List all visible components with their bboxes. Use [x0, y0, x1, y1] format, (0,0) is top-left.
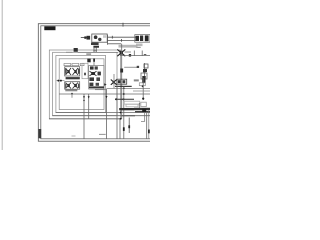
- center row4 boxes: [89, 83, 93, 86]
- bowtie core: [113, 81, 115, 84]
- center row2 right mark: [98, 72, 101, 76]
- relief valve X (bowtie): [117, 49, 125, 56]
- center row2 core: [91, 72, 95, 75]
- bus line y118.8: [49, 118, 122, 120]
- mark inside light box: [84, 73, 86, 76]
- outer frame: [38, 24, 152, 142]
- inner frame: [41, 26, 153, 139]
- cooler vertical 2: [141, 51, 143, 56]
- dot on x143: [142, 98, 144, 100]
- dark mark x129: [128, 125, 130, 128]
- small text under valve block: [136, 47, 141, 48]
- arrowhead x106: [106, 96, 108, 98]
- right edge component stack vertical: [144, 63, 146, 82]
- corner down from y94: [71, 94, 73, 98]
- tick on line2: [121, 39, 123, 42]
- drop vertical x120: [119, 119, 121, 139]
- nested group box D: [59, 59, 104, 110]
- dark line y99.3 with dots: [115, 98, 134, 100]
- solenoid cells: [118, 80, 121, 83]
- center row1 dark boxes: [90, 66, 94, 69]
- branch end tick: [137, 66, 139, 68]
- arrowhead x88.7: [88, 96, 90, 98]
- cooler vertical 1: [133, 51, 135, 56]
- darker segment on y115.7: [122, 115, 135, 117]
- valve block cell 3: [145, 35, 149, 41]
- pump drive shaft line: [81, 37, 87, 39]
- left bank section 1 box: [65, 67, 80, 76]
- small mark right edge y72: [143, 72, 145, 74]
- corner line x144.7: [141, 113, 145, 121]
- top border tick: [122, 23, 124, 27]
- arrowhead x84: [83, 96, 85, 98]
- small text left of filter: [66, 52, 73, 53]
- pump label text 2: [86, 53, 91, 54]
- return line y91 right: [133, 90, 150, 92]
- relief outlet small square: [129, 54, 131, 57]
- stack box2 dark mark: [142, 76, 145, 79]
- arrow mark: [104, 83, 107, 86]
- bus line y115.7: [52, 115, 150, 117]
- return line under relief: [120, 55, 150, 57]
- vertical x143: [142, 78, 144, 100]
- right edge vertical x148.8: [148, 110, 150, 139]
- stack box 2: [141, 73, 147, 79]
- page left edge line: [1, 0, 3, 150]
- valve block cell 2: [140, 36, 143, 42]
- bus line y112.5: [56, 112, 150, 114]
- section2 dark centers: [67, 84, 70, 87]
- pump outlet vertical a: [93, 47, 95, 52]
- pump outlet vertical b: [95, 47, 97, 52]
- nested group box A: [49, 50, 120, 119]
- bowtie valve center-right: [111, 80, 117, 85]
- branch line y67: [124, 66, 138, 68]
- nested group box C: [56, 56, 106, 113]
- tick on line1: [111, 36, 113, 39]
- valve X symbol 1: [66, 68, 72, 75]
- dot on line y60: [93, 58, 95, 61]
- right valve block outline: [135, 35, 150, 43]
- junction dots at x120: [120, 112, 122, 114]
- dark bottom band of center cluster: [89, 86, 104, 88]
- valve block lower marks: [136, 44, 143, 47]
- pump label text: [93, 50, 97, 51]
- dot on y88.9 x124: [123, 87, 125, 89]
- dot top x84: [83, 100, 85, 102]
- section2 X symbol 1: [66, 83, 72, 89]
- delivery line 1: [108, 36, 137, 38]
- pump outlet vertical: [107, 35, 109, 45]
- small dark squares right: [142, 109, 146, 112]
- bottom border small text dash: [72, 135, 76, 137]
- engine blob: [87, 36, 91, 40]
- right dark band to edge: [134, 108, 150, 110]
- right dark band 2: [135, 111, 150, 113]
- left border vertical label block: [39, 129, 42, 138]
- tank light boxes top-right of bus: [124, 101, 146, 107]
- center row2 X valve: [90, 71, 97, 76]
- pump gear circle 2: [98, 38, 101, 41]
- vertical through bowtie: [113, 74, 115, 88]
- drop vertical x84: [83, 94, 85, 139]
- marks under section2: [65, 89, 77, 91]
- long return line y88.9: [107, 87, 151, 89]
- thick dark drain segment: [115, 86, 132, 87]
- center row3 boxes: [89, 77, 94, 81]
- coupling blob: [84, 36, 86, 38]
- junction dots on nested edges: [57, 80, 62, 82]
- pump lower valves row: [91, 43, 99, 45]
- short line y89.7: [95, 89, 106, 91]
- pump gear circle 1: [94, 35, 98, 39]
- dark band under section1: [66, 77, 80, 79]
- delivery line 3: [108, 43, 122, 45]
- section2 X symbol 2: [73, 83, 79, 89]
- dark tick on x123.8: [123, 127, 125, 131]
- stack box 1: [144, 64, 148, 68]
- valve X symbol 2: [73, 68, 79, 75]
- gray band above relief: [119, 45, 138, 48]
- tick at x72 on return line: [71, 93, 73, 95]
- vertical x129 short: [128, 118, 130, 134]
- delivery line 2: [108, 40, 137, 42]
- pump lower box: [93, 46, 99, 48]
- dash near bottom x99-106: [99, 133, 106, 135]
- drop vertical x88.7: [88, 94, 90, 119]
- pilot line crossing nested edges: [57, 80, 65, 82]
- cooler top tick: [144, 54, 147, 56]
- vertical x123.8: [123, 87, 125, 139]
- nested group box B: [53, 52, 117, 115]
- orifice blob on x122: [120, 69, 123, 73]
- vertical x146.7: [146, 113, 148, 139]
- drop vertical x106: [106, 89, 108, 139]
- center cluster box: [89, 66, 104, 90]
- title label black box: [44, 26, 55, 30]
- dark band y108.5-110: [119, 108, 134, 110]
- valve block cell 1: [136, 36, 140, 41]
- line right of relief: [125, 51, 132, 53]
- stack dark mark: [143, 69, 147, 72]
- line from pump area to relief X: [78, 51, 119, 53]
- relief dark core: [120, 51, 123, 55]
- left bank section 2 box: [65, 82, 80, 90]
- vertical x139.3 top: [138, 103, 140, 108]
- dot under small box: [142, 85, 144, 87]
- right row marks y80: [134, 79, 139, 81]
- filter blob on group top line: [74, 48, 78, 52]
- pilot feed vertical x122: [121, 44, 123, 119]
- labels row on left bank: [64, 64, 84, 66]
- solenoid valve box: [117, 79, 127, 84]
- right row blob: [142, 78, 145, 82]
- long return line y94: [59, 93, 150, 95]
- pump ports marks: [103, 35, 106, 38]
- right small box y83: [139, 83, 145, 86]
- dark blob top of center cluster: [87, 59, 90, 63]
- light box left of center cluster: [82, 63, 88, 78]
- valve dark centers: [67, 70, 69, 73]
- pump group box: [92, 34, 107, 42]
- vertical x117: [116, 86, 118, 139]
